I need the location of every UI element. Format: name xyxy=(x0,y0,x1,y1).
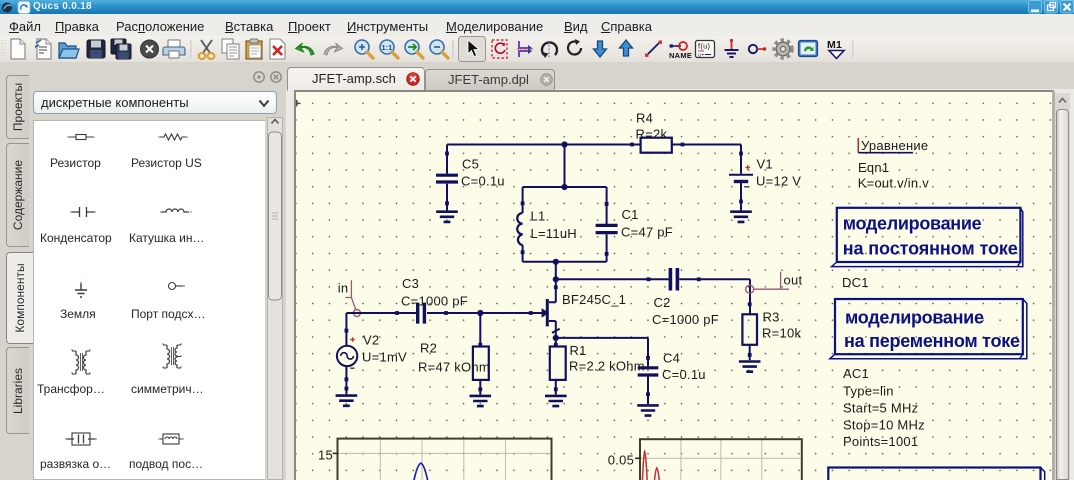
transistor BF245C_1 JFET xyxy=(529,285,560,346)
svg-text:M1: M1 xyxy=(827,39,842,51)
svg-text:BF245C_1: BF245C_1 xyxy=(562,292,626,307)
list scrollbar xyxy=(267,117,283,480)
title bar xyxy=(0,0,1074,14)
svg-text:Stop=10 MHz: Stop=10 MHz xyxy=(843,418,925,433)
подвод питания icon xyxy=(158,434,184,444)
label C1 xyxy=(621,207,673,240)
ground C4 xyxy=(637,405,659,415)
svg-text:C4: C4 xyxy=(663,351,680,366)
развязка icon xyxy=(65,433,97,445)
wire top rail C5 to V1 xyxy=(447,144,741,146)
simulation box DC xyxy=(832,208,1023,267)
svg-text:на постоянном токе: на постоянном токе xyxy=(843,239,1018,259)
svg-text:V1: V1 xyxy=(757,157,773,172)
svg-text:моделирование: моделирование xyxy=(843,214,982,234)
wire junction down to tank xyxy=(564,145,566,188)
wire in port to C3 xyxy=(346,312,417,314)
left dock: vertical tabs xyxy=(6,75,29,139)
svg-text:C=1000 pF: C=1000 pF xyxy=(652,312,719,327)
resistor R4 xyxy=(630,138,684,153)
port out label xyxy=(754,272,802,289)
симметричный трансформатор icon xyxy=(162,344,182,368)
svg-text:R=2.2 kOhm: R=2.2 kOhm xyxy=(569,359,645,374)
порт icon xyxy=(169,283,186,290)
svg-text:R=10k: R=10k xyxy=(762,326,801,341)
wire C3 to gate xyxy=(427,312,547,314)
svg-text:NAME: NAME xyxy=(669,51,692,60)
port in circle xyxy=(353,310,360,317)
svg-text:R=2k: R=2k xyxy=(636,127,668,142)
combo box xyxy=(33,91,277,114)
equation Eqn1 xyxy=(858,138,930,191)
ground V1 xyxy=(730,212,752,222)
label R3 xyxy=(762,310,801,341)
node R2 branch xyxy=(477,310,483,316)
резистор US icon xyxy=(158,134,188,140)
svg-text:R3: R3 xyxy=(763,310,780,325)
label DC1 xyxy=(842,275,869,290)
svg-text:15: 15 xyxy=(318,448,333,463)
svg-text:L=11uH: L=11uH xyxy=(531,226,577,241)
resistor R2 xyxy=(473,313,489,395)
svg-text:C5: C5 xyxy=(462,157,479,172)
simulation box AC xyxy=(830,299,1027,359)
svg-text:U=12 V: U=12 V xyxy=(756,174,801,189)
svg-text:моделирование: моделирование xyxy=(845,308,984,328)
label C3 xyxy=(401,276,468,309)
voltage source V1 xyxy=(729,145,753,211)
svg-text:C2: C2 xyxy=(654,295,671,310)
трансформатор icon xyxy=(71,350,91,374)
label R2 xyxy=(418,341,490,375)
document tabs xyxy=(286,89,1074,480)
port out circle xyxy=(746,285,754,293)
svg-text:на переменном токе: на переменном токе xyxy=(844,331,1020,351)
svg-text:AC1: AC1 xyxy=(843,366,869,381)
svg-text:C3: C3 xyxy=(402,276,419,291)
ground C5 xyxy=(436,212,458,222)
ground R1 xyxy=(545,396,567,406)
wire tank top xyxy=(523,186,607,188)
svg-text:C=0.1u: C=0.1u xyxy=(461,174,505,189)
resistor R1 xyxy=(550,343,566,395)
svg-text:u+: u+ xyxy=(698,53,705,59)
svg-text:Points=1001: Points=1001 xyxy=(843,434,918,449)
svg-text:Eqn1: Eqn1 xyxy=(858,160,889,175)
node top rail junction xyxy=(561,141,567,147)
port in label xyxy=(338,280,356,310)
земля icon xyxy=(75,282,87,297)
wire source to C4 xyxy=(556,337,648,339)
label C4 xyxy=(662,351,706,383)
svg-text:out: out xyxy=(784,273,803,288)
svg-text:Start=5 MHz: Start=5 MHz xyxy=(843,401,918,416)
svg-text:0.05: 0.05 xyxy=(608,453,634,468)
svg-text:C=0.1u: C=0.1u xyxy=(662,367,706,382)
svg-text:R2: R2 xyxy=(420,341,437,356)
ground R3 xyxy=(739,362,761,372)
capacitor C3 xyxy=(395,303,448,324)
svg-text:DC1: DC1 xyxy=(842,275,869,290)
svg-text:C1: C1 xyxy=(622,207,639,222)
resistor R3 xyxy=(742,314,757,360)
резистор icon xyxy=(67,135,95,140)
inductor L1 xyxy=(517,187,524,262)
label AC1 parameters xyxy=(843,366,925,449)
diagram right frame xyxy=(608,439,802,480)
diagram left frame xyxy=(318,439,552,480)
wire drain node to C2 xyxy=(556,278,669,280)
schematic drawing xyxy=(296,92,1052,480)
capacitor C1 xyxy=(596,187,618,262)
node tank bottom xyxy=(553,259,559,265)
label V2 xyxy=(362,333,407,365)
node source branch xyxy=(553,335,559,341)
катушка icon xyxy=(160,209,192,212)
svg-text:C=47 pF: C=47 pF xyxy=(621,225,673,240)
label L1 xyxy=(531,209,577,242)
capacitor C5 xyxy=(436,145,458,211)
node drain branch xyxy=(553,276,559,282)
component list xyxy=(33,120,265,480)
svg-text:C=1000 pF: C=1000 pF xyxy=(401,294,468,309)
svg-text:U=1mV: U=1mV xyxy=(362,350,407,365)
svg-text:K=out.v/in.v: K=out.v/in.v xyxy=(858,176,930,191)
svg-text:f(u): f(u) xyxy=(698,42,711,51)
конденсатор icon xyxy=(70,207,96,217)
dock header buttons xyxy=(250,69,286,85)
wire tank bottom to drain xyxy=(555,262,557,288)
capacitor C4 xyxy=(638,338,659,404)
svg-text:V2: V2 xyxy=(363,333,379,348)
svg-text:in: in xyxy=(338,281,349,296)
diagram right red curve xyxy=(642,451,659,480)
voltage source V2 xyxy=(337,313,357,394)
label BF245C_1 xyxy=(562,292,626,307)
simulation box transient (partial) xyxy=(828,468,1044,480)
svg-text:Type=lin: Type=lin xyxy=(843,384,894,399)
label R4 xyxy=(636,111,668,142)
label C5 xyxy=(461,157,505,189)
node R3 top xyxy=(748,302,752,306)
ground V2 xyxy=(336,396,358,406)
label C2 xyxy=(652,295,719,327)
ground R2 xyxy=(470,396,492,406)
capacitor C2 xyxy=(647,268,701,291)
svg-text:Уравнение: Уравнение xyxy=(861,138,928,153)
wire tank bottom xyxy=(523,261,607,263)
svg-text:R1: R1 xyxy=(570,343,587,358)
svg-text:R4: R4 xyxy=(636,111,653,126)
origin cross xyxy=(295,100,301,107)
wire C2 to out corner xyxy=(679,279,750,314)
svg-text:L1: L1 xyxy=(531,209,546,224)
label V1 xyxy=(756,157,801,189)
svg-text:R=47 kOhm: R=47 kOhm xyxy=(418,360,490,375)
label R1 xyxy=(569,343,645,374)
diagram left blue curve xyxy=(414,463,428,480)
node tank top xyxy=(561,184,567,190)
